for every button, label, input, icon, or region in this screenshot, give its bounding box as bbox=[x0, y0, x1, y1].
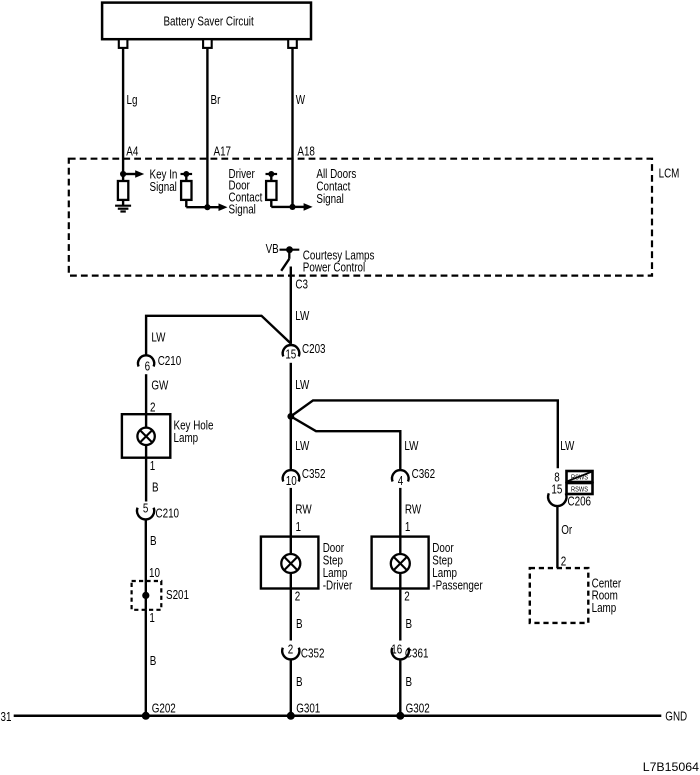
svg-text:2: 2 bbox=[404, 590, 409, 603]
svg-text:A17: A17 bbox=[214, 145, 232, 158]
svg-text:Lamp: Lamp bbox=[174, 432, 199, 445]
svg-text:2: 2 bbox=[295, 590, 300, 603]
svg-text:Signal: Signal bbox=[229, 203, 256, 216]
label Door Step Lamp -Passenger bbox=[432, 542, 483, 593]
resistor driver door contact pull-up bbox=[181, 171, 208, 207]
arrow all doors contact signal bbox=[293, 206, 305, 208]
connector C210 pin 6 bbox=[138, 355, 181, 374]
wire C361 pin 16 to ground G302 bbox=[399, 660, 401, 716]
node courtesy lamp feed junction bbox=[287, 413, 294, 420]
svg-text:G202: G202 bbox=[152, 702, 176, 715]
label Center Room Lamp bbox=[592, 577, 622, 615]
svg-text:Lg: Lg bbox=[127, 94, 138, 107]
svg-text:B: B bbox=[152, 482, 159, 495]
svg-text:-Passenger: -Passenger bbox=[432, 579, 483, 592]
LCM module dashed outline bbox=[69, 159, 652, 276]
node ground G301 bbox=[287, 712, 295, 720]
svg-text:RW: RW bbox=[295, 504, 311, 517]
svg-text:LW: LW bbox=[404, 440, 418, 453]
svg-text:B: B bbox=[406, 618, 413, 631]
wire C210 pin 5 to splice S201 bbox=[145, 520, 147, 582]
connector C210 pin 5 bbox=[137, 502, 179, 521]
svg-text:RSWS: RSWS bbox=[571, 486, 589, 494]
svg-text:C362: C362 bbox=[412, 468, 436, 481]
svg-text:15: 15 bbox=[285, 348, 296, 361]
wire C203 to junction node bbox=[290, 363, 292, 417]
ground (LCM internal) bbox=[115, 206, 131, 212]
wire C352 pin 10 to door step lamp driver bbox=[290, 488, 292, 537]
svg-text:C352: C352 bbox=[302, 468, 326, 481]
svg-text:GND: GND bbox=[665, 711, 687, 724]
svg-text:Signal: Signal bbox=[150, 181, 177, 194]
wire C362 pin 4 to door step lamp passenger bbox=[399, 488, 401, 537]
svg-text:C210: C210 bbox=[156, 507, 180, 520]
svg-text:Power Control: Power Control bbox=[303, 261, 365, 274]
svg-text:C206: C206 bbox=[568, 495, 592, 508]
svg-text:Key In: Key In bbox=[150, 168, 178, 181]
svg-text:2: 2 bbox=[150, 401, 155, 414]
node VB terminal bbox=[280, 246, 300, 253]
svg-text:Signal: Signal bbox=[316, 193, 343, 206]
svg-text:RW: RW bbox=[405, 504, 421, 517]
svg-text:4: 4 bbox=[398, 475, 404, 488]
option tag RSWS crossed (without RSWS) bbox=[567, 471, 593, 482]
label Driver Door Contact Signal bbox=[229, 168, 264, 217]
svg-text:1: 1 bbox=[405, 521, 410, 534]
svg-text:A18: A18 bbox=[297, 145, 315, 158]
label Key Hole Lamp bbox=[174, 419, 214, 445]
svg-text:10: 10 bbox=[286, 475, 297, 488]
svg-text:-Driver: -Driver bbox=[323, 579, 353, 592]
arrow driver door contact signal bbox=[207, 206, 219, 208]
wire courtesy lamp feed (switch to C203) bbox=[290, 267, 292, 344]
resistor key-in pull-down bbox=[118, 174, 128, 206]
label All Doors Contact Signal bbox=[316, 168, 356, 206]
wire S201 to ground G202 bbox=[145, 610, 147, 716]
wire Lg (battery saver to LCM pin A4) bbox=[122, 48, 124, 174]
label Key In Signal bbox=[150, 168, 178, 194]
svg-text:LCM: LCM bbox=[659, 167, 680, 180]
svg-text:B: B bbox=[406, 676, 413, 689]
node A18 junction bbox=[289, 204, 295, 210]
wire Br (battery saver to LCM pin A17) bbox=[206, 48, 208, 207]
wire door step lamp passenger to C361 pin 16 bbox=[399, 589, 401, 641]
svg-text:C361: C361 bbox=[405, 648, 429, 661]
connector C352 pin 2 bbox=[282, 643, 324, 661]
wire key hole lamp to C210 pin 5 bbox=[145, 458, 147, 502]
connector C203 pin 15 bbox=[283, 343, 326, 362]
svg-text:1: 1 bbox=[296, 521, 301, 534]
key hole lamp bbox=[122, 414, 170, 458]
wire C352 pin 2 to ground G301 bbox=[290, 660, 292, 716]
label Courtesy Lamps Power Control bbox=[303, 249, 375, 274]
svg-text:10: 10 bbox=[149, 567, 160, 580]
connector pin terminal A17 of battery saver circuit bbox=[203, 39, 212, 48]
battery saver circuit box bbox=[102, 3, 311, 40]
connector pin terminal A4 of battery saver circuit bbox=[119, 39, 128, 48]
svg-text:Or: Or bbox=[561, 524, 572, 537]
node A4 junction bbox=[120, 171, 126, 177]
svg-text:GW: GW bbox=[151, 379, 168, 392]
svg-text:LW: LW bbox=[560, 440, 574, 453]
center room lamp dashed box bbox=[530, 568, 589, 623]
resistor all doors contact pull-up bbox=[266, 171, 293, 207]
svg-text:B: B bbox=[150, 535, 157, 548]
svg-text:6: 6 bbox=[145, 360, 150, 373]
svg-text:LW: LW bbox=[295, 440, 309, 453]
ground bus 31 to GND bbox=[14, 715, 662, 718]
wire branch to C362 (passenger) bbox=[291, 416, 401, 470]
arrow key in signal bbox=[123, 173, 136, 175]
svg-text:2: 2 bbox=[288, 643, 293, 656]
node ground G302 bbox=[396, 712, 404, 720]
svg-text:LW: LW bbox=[151, 331, 165, 344]
svg-text:15: 15 bbox=[551, 483, 562, 496]
wire branch to C206 (rear) bbox=[291, 400, 558, 468]
svg-text:B: B bbox=[296, 618, 303, 631]
svg-text:LW: LW bbox=[295, 379, 309, 392]
connector C206 pins 8/15 bbox=[548, 493, 591, 508]
svg-text:W: W bbox=[296, 94, 305, 107]
svg-text:1: 1 bbox=[149, 612, 154, 625]
svg-text:LW: LW bbox=[295, 310, 309, 323]
svg-text:C3: C3 bbox=[295, 278, 308, 291]
connector C352 pin 10 bbox=[283, 468, 326, 488]
svg-text:Br: Br bbox=[211, 94, 221, 107]
svg-text:C352: C352 bbox=[301, 648, 325, 661]
wire junction to C352 (driver) bbox=[290, 416, 292, 470]
svg-text:31: 31 bbox=[1, 711, 12, 724]
label Door Step Lamp -Driver bbox=[323, 542, 353, 593]
door step lamp driver bbox=[261, 537, 319, 589]
wire W (battery saver to LCM pin A18) bbox=[291, 48, 293, 207]
connector C362 pin 4 bbox=[392, 468, 435, 488]
node ground G202 bbox=[142, 712, 150, 720]
wire C210 pin 6 to key hole lamp bbox=[145, 374, 147, 414]
svg-text:5: 5 bbox=[143, 502, 148, 515]
node A17 junction bbox=[204, 204, 210, 210]
svg-text:VB: VB bbox=[266, 243, 279, 256]
connector C361 pin 16 bbox=[391, 643, 428, 661]
splice S201 bbox=[132, 581, 162, 610]
svg-text:G301: G301 bbox=[296, 702, 320, 715]
option tag RSWS (with RSWS) bbox=[567, 483, 593, 494]
svg-text:1: 1 bbox=[150, 460, 155, 473]
svg-text:L7B15064: L7B15064 bbox=[643, 760, 699, 774]
door step lamp passenger bbox=[372, 537, 429, 589]
switch courtesy lamps power control bbox=[281, 252, 289, 271]
svg-text:Lamp: Lamp bbox=[592, 602, 617, 615]
wire branch to key hole lamp bbox=[146, 316, 291, 356]
svg-text:Battery Saver Circuit: Battery Saver Circuit bbox=[163, 16, 254, 29]
wire door step lamp driver to C352 pin 2 bbox=[290, 589, 292, 641]
svg-text:A4: A4 bbox=[126, 145, 139, 158]
svg-text:2: 2 bbox=[561, 555, 566, 568]
wire C206 to center room lamp bbox=[556, 506, 558, 568]
svg-text:B: B bbox=[150, 655, 157, 668]
svg-text:C210: C210 bbox=[158, 355, 182, 368]
connector pin terminal A18 of battery saver circuit bbox=[288, 39, 297, 48]
svg-text:S201: S201 bbox=[166, 589, 189, 602]
svg-text:C203: C203 bbox=[302, 343, 326, 356]
svg-text:G302: G302 bbox=[406, 702, 430, 715]
svg-text:B: B bbox=[296, 676, 303, 689]
